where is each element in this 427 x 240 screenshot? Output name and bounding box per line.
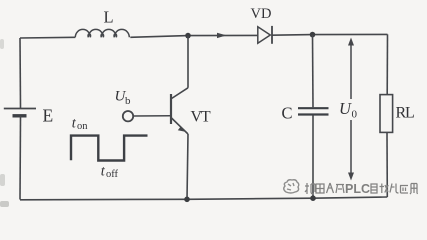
- wire: inductor to node A: [130, 36, 188, 38]
- wire: node A down to transistor collector: [187, 36, 189, 88]
- wire: base: [134, 115, 171, 117]
- watermark logo: [284, 180, 299, 193]
- scan smudge left middle: [0, 174, 5, 186]
- wire: node A to diode with current arrow: [188, 34, 258, 36]
- junction dot bottom emitter: [184, 197, 190, 203]
- svg-text:PLC: PLC: [345, 182, 370, 196]
- svg-text:on: on: [77, 121, 88, 132]
- junction dot bottom capacitor: [310, 195, 316, 201]
- capacitor C stem bottom: [312, 116, 314, 199]
- base drive terminal circle: [123, 111, 133, 121]
- svg-text:0: 0: [352, 109, 358, 121]
- capacitor C plates: [298, 107, 329, 109]
- wire: RL bottom down to bottom rail: [386, 133, 388, 197]
- inductor L: [75, 29, 129, 37]
- waveform t_on / t_off: [71, 136, 148, 161]
- wire: bottom rail: [20, 197, 387, 200]
- Uo measurement arrow (double headed): [348, 38, 354, 181]
- watermark text (stylized glyph strokes): [305, 182, 418, 196]
- capacitor C stem top: [312, 35, 315, 108]
- svg-text:L: L: [104, 8, 114, 27]
- svg-text:C: C: [282, 104, 293, 123]
- svg-text:b: b: [125, 95, 131, 107]
- node B (junction dot after diode): [310, 32, 316, 38]
- wire: right side down to RL: [386, 34, 388, 94]
- node A (junction dot after inductor): [185, 33, 191, 39]
- diode VD: [258, 27, 271, 43]
- scan smudge left top: [0, 39, 4, 49]
- svg-text:U: U: [339, 99, 352, 118]
- resistor RL: [380, 95, 393, 133]
- wire: diode to node B to top right corner: [272, 33, 388, 36]
- scan smudge bottom left: [0, 201, 9, 207]
- svg-text:VT: VT: [191, 109, 211, 126]
- wire: battery to bottom rail: [19, 116, 22, 200]
- transistor VT: [171, 88, 188, 134]
- svg-text:E: E: [43, 106, 54, 126]
- svg-text:VD: VD: [251, 6, 272, 22]
- wire: emitter down to bottom rail: [187, 134, 188, 200]
- battery E: [4, 108, 36, 110]
- current direction arrow: [217, 33, 227, 38]
- svg-text:off: off: [106, 169, 119, 180]
- svg-text:RL: RL: [396, 105, 414, 122]
- wire: left side (top corner down to battery): [19, 38, 22, 108]
- wire: top left segment to inductor: [20, 36, 75, 39]
